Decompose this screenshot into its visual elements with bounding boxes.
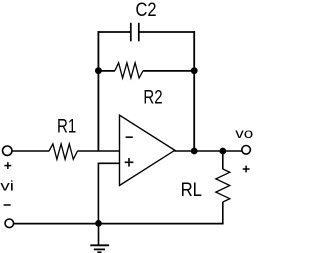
wire output bbox=[175, 150, 242, 152]
wire R1 left lead bbox=[12, 150, 49, 152]
node ground junction bbox=[95, 220, 102, 227]
resistor R2 bbox=[115, 63, 143, 78]
op-amp U1 minus pin mark bbox=[126, 136, 133, 138]
terminal vo output bbox=[242, 146, 251, 155]
wire RL bottom lead bbox=[222, 202, 224, 224]
label vo plus mark bbox=[243, 166, 250, 173]
wire ground stub bbox=[98, 223, 100, 245]
ground bbox=[90, 245, 109, 252]
terminal vi minus input bbox=[5, 219, 14, 228]
node junction dot right feedback bbox=[191, 67, 198, 74]
wire right feedback vertical bbox=[193, 31, 195, 151]
svg-text:R1: R1 bbox=[57, 117, 76, 138]
op-amp U1 bbox=[120, 115, 175, 185]
wire top loop left horizontal bbox=[98, 31, 132, 33]
svg-text:vo: vo bbox=[235, 125, 253, 141]
svg-text:R2: R2 bbox=[143, 88, 162, 109]
resistor R1 bbox=[49, 144, 78, 159]
capacitor C2 bbox=[131, 23, 139, 42]
resistor RL bbox=[216, 169, 230, 202]
wire bottom rail bbox=[14, 223, 224, 225]
op-amp U1 plus pin mark bbox=[125, 158, 134, 167]
wire R2 left lead bbox=[98, 70, 115, 72]
wire RL top lead bbox=[222, 151, 224, 169]
svg-text:vi: vi bbox=[0, 179, 14, 195]
node junction dot left feedback bbox=[95, 67, 102, 74]
terminal vi plus input bbox=[3, 146, 12, 155]
label vi plus mark bbox=[4, 162, 11, 169]
svg-text:RL: RL bbox=[181, 180, 203, 201]
node output RL junction bbox=[219, 148, 226, 155]
wire non-inverting input from ground rail bbox=[98, 163, 119, 223]
wire R2 right lead bbox=[143, 70, 194, 72]
wire left feedback vertical bbox=[97, 31, 99, 151]
wire top loop right horizontal bbox=[139, 31, 195, 33]
label vi minus mark bbox=[4, 204, 11, 206]
svg-text:C2: C2 bbox=[136, 0, 157, 21]
wire R1 to inverting input bbox=[77, 150, 119, 152]
node output feedback junction bbox=[191, 148, 198, 155]
